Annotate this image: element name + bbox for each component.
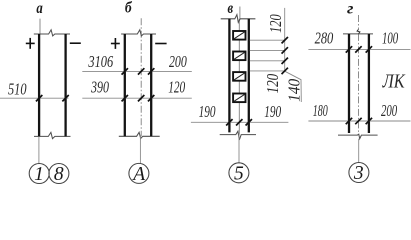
svg-text:г: г [347,1,354,18]
svg-text:190: 190 [264,102,281,121]
svg-text:ЛК: ЛК [382,71,406,93]
svg-text:180: 180 [313,101,328,120]
svg-text:100: 100 [382,29,399,48]
svg-text:200: 200 [169,52,187,71]
svg-text:а: а [36,0,42,17]
svg-text:120: 120 [168,78,185,97]
svg-text:1: 1 [34,164,44,185]
svg-text:5: 5 [234,163,244,184]
svg-text:3106: 3106 [88,52,114,71]
svg-text:б: б [125,0,133,17]
svg-text:140: 140 [285,78,304,101]
svg-text:510: 510 [8,80,27,99]
svg-text:280: 280 [315,29,334,48]
svg-text:3: 3 [353,163,364,184]
svg-text:390: 390 [90,78,109,97]
svg-text:120: 120 [266,14,285,33]
svg-text:А: А [131,164,145,185]
svg-text:8: 8 [54,164,64,185]
svg-text:120: 120 [263,74,282,94]
svg-text:190: 190 [199,102,216,121]
svg-text:в: в [228,0,234,17]
svg-text:200: 200 [381,101,398,120]
